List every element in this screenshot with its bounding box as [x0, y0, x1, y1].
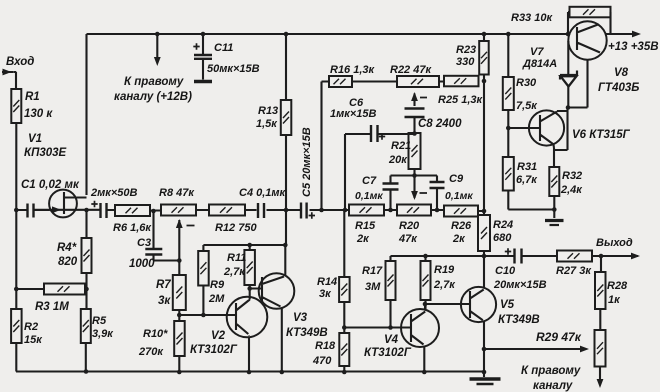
svg-text:330: 330 — [456, 56, 475, 68]
svg-text:V2: V2 — [211, 330, 226, 342]
svg-text:3,9к: 3,9к — [92, 328, 114, 340]
svg-text:С8 2400: С8 2400 — [418, 118, 462, 130]
svg-text:R2: R2 — [24, 321, 38, 333]
svg-text:1мк×15В: 1мк×15В — [330, 108, 376, 120]
svg-text:R26: R26 — [451, 220, 472, 232]
svg-text:R17: R17 — [362, 265, 383, 277]
svg-text:1000: 1000 — [129, 258, 155, 270]
svg-text:R24: R24 — [493, 219, 513, 231]
svg-text:С9: С9 — [449, 173, 464, 185]
svg-text:Д814А: Д814А — [522, 58, 557, 70]
svg-text:R20: R20 — [399, 220, 420, 232]
svg-text:2к: 2к — [452, 233, 466, 245]
svg-text:R28: R28 — [607, 280, 628, 292]
svg-text:каналу (+12В): каналу (+12В) — [114, 91, 192, 103]
svg-text:V7: V7 — [530, 46, 544, 58]
svg-text:3к: 3к — [319, 288, 332, 300]
svg-text:2к: 2к — [356, 233, 370, 245]
svg-text:1,5к: 1,5к — [256, 118, 278, 130]
svg-text:С4 0,1мк: С4 0,1мк — [239, 187, 287, 199]
svg-text:R11: R11 — [227, 252, 246, 264]
svg-text:R31: R31 — [517, 161, 537, 173]
svg-text:Выход: Выход — [596, 237, 633, 249]
svg-text:R18: R18 — [315, 340, 336, 352]
svg-text:R9: R9 — [210, 279, 225, 291]
svg-text:V5: V5 — [500, 299, 515, 311]
svg-text:К правому: К правому — [124, 76, 184, 88]
svg-text:2мк×50В: 2мк×50В — [90, 187, 137, 199]
svg-text:0,1мк: 0,1мк — [355, 190, 383, 202]
svg-text:R6 1,6к: R6 1,6к — [113, 222, 152, 234]
svg-text:2,7к: 2,7к — [433, 279, 456, 291]
svg-text:R13: R13 — [258, 105, 278, 117]
svg-text:7,5к: 7,5к — [516, 100, 538, 112]
svg-text:820: 820 — [58, 256, 78, 268]
svg-text:С11: С11 — [214, 42, 233, 54]
svg-text:R7: R7 — [156, 279, 171, 291]
svg-text:130 к: 130 к — [24, 108, 53, 120]
svg-text:С5 20мк×15В: С5 20мк×15В — [301, 127, 313, 197]
svg-text:каналу: каналу — [533, 380, 573, 392]
svg-text:R32: R32 — [562, 170, 582, 182]
svg-text:КТ3102Г: КТ3102Г — [364, 347, 412, 359]
svg-text:V6 КТ315Г: V6 КТ315Г — [572, 129, 631, 141]
svg-text:R10*: R10* — [143, 328, 168, 340]
svg-text:470: 470 — [312, 355, 332, 367]
svg-text:R27 3к: R27 3к — [556, 265, 592, 277]
svg-text:С1 0,02 мк: С1 0,02 мк — [21, 179, 80, 191]
svg-text:V3: V3 — [293, 312, 308, 324]
svg-text:1к: 1к — [608, 294, 621, 306]
svg-text:R3 1М: R3 1М — [35, 301, 69, 313]
svg-text:С10: С10 — [495, 265, 516, 277]
svg-text:С3: С3 — [137, 237, 151, 249]
svg-text:R16 1,3к: R16 1,3к — [330, 64, 376, 76]
svg-text:КТ3102Г: КТ3102Г — [190, 344, 238, 356]
svg-text:КТ349В: КТ349В — [286, 327, 328, 339]
svg-text:К правому: К правому — [521, 365, 581, 377]
svg-text:R8 47к: R8 47к — [159, 187, 195, 199]
svg-text:3к: 3к — [158, 295, 171, 307]
svg-text:V4: V4 — [384, 334, 399, 346]
svg-text:С7: С7 — [362, 175, 377, 187]
svg-text:R22 47к: R22 47к — [390, 64, 432, 76]
svg-text:V1: V1 — [28, 133, 42, 145]
svg-text:R12 750: R12 750 — [215, 222, 257, 234]
svg-text:2М: 2М — [208, 293, 225, 305]
svg-text:6,7к: 6,7к — [516, 174, 538, 186]
svg-text:ГТ403Б: ГТ403Б — [598, 82, 639, 94]
svg-text:R5: R5 — [92, 315, 107, 327]
svg-text:КТ349В: КТ349В — [498, 314, 540, 326]
svg-text:R15: R15 — [355, 220, 376, 232]
svg-text:15к: 15к — [24, 334, 43, 346]
svg-text:50мк×15В: 50мк×15В — [207, 63, 260, 75]
svg-text:КП303Е: КП303Е — [24, 147, 67, 159]
svg-text:R29 47к: R29 47к — [536, 330, 582, 344]
svg-text:R14: R14 — [317, 276, 337, 288]
svg-text:+13 +35В: +13 +35В — [608, 41, 659, 53]
svg-text:20мк×15В: 20мк×15В — [493, 279, 547, 291]
svg-text:3М: 3М — [365, 281, 381, 293]
svg-text:R25 1,3к: R25 1,3к — [438, 94, 484, 106]
svg-text:V8: V8 — [614, 67, 629, 79]
svg-text:270к: 270к — [138, 346, 164, 358]
svg-text:680: 680 — [493, 232, 512, 244]
svg-text:R23: R23 — [456, 44, 476, 56]
svg-text:2,7к: 2,7к — [223, 266, 246, 278]
svg-text:R21: R21 — [391, 140, 411, 152]
svg-text:R4*: R4* — [57, 242, 77, 254]
svg-text:R1: R1 — [25, 91, 40, 103]
svg-text:R33 10к: R33 10к — [511, 12, 553, 24]
svg-text:R19: R19 — [434, 264, 455, 276]
svg-text:Вход: Вход — [6, 56, 34, 68]
svg-text:20к: 20к — [388, 154, 408, 166]
svg-text:0,1мк: 0,1мк — [445, 190, 473, 202]
svg-text:47к: 47к — [398, 233, 418, 245]
svg-text:2,4к: 2,4к — [560, 184, 583, 196]
svg-text:R30: R30 — [516, 77, 537, 89]
